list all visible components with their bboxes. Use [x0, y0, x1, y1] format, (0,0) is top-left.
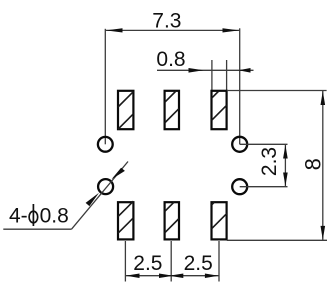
leader underline: [3, 228, 71, 230]
arrowhead 2.3 up: [283, 145, 288, 159]
extension line pad left edge: [211, 60, 213, 91]
svg-text:2.5: 2.5: [133, 252, 162, 275]
arrowhead 7.3 right: [223, 28, 240, 32]
arrowhead 2.5 middle left-pointing: [169, 274, 183, 279]
svg-text:0.8: 0.8: [40, 204, 69, 227]
dimension line 8: [322, 91, 324, 241]
hole circle bottom-left: [98, 179, 113, 194]
extension line left of 7.3 to hole center: [104, 29, 106, 145]
hole circle top-right: [232, 137, 247, 152]
dimension line 7.3: [105, 29, 239, 31]
pad top-right hatched: [212, 91, 227, 129]
pad bottom-left hatched: [118, 201, 133, 239]
arrowhead 2.5 right outer: [205, 274, 219, 279]
svg-text:7.3: 7.3: [152, 10, 181, 33]
hole circle top-left: [98, 137, 113, 152]
arrowhead 7.3 left: [106, 28, 123, 32]
pad top-left hatched: [118, 91, 133, 129]
extension line pad right edge: [226, 60, 228, 91]
svg-text:4-: 4-: [9, 204, 28, 227]
leader arrowhead upper: [112, 168, 125, 180]
pad bottom-middle hatched: [165, 202, 179, 239]
extension line below pad bottom-right: [218, 241, 220, 282]
label 4-phi0.8: [9, 204, 69, 227]
arrowhead 2.3 down: [283, 173, 288, 187]
dimension line 0.8: [157, 69, 254, 71]
extension line 8 bottom: [227, 239, 327, 241]
leader diagonal through bottom-left hole: [72, 162, 129, 230]
pad top-middle hatched: [165, 91, 179, 129]
arrowhead 0.8 right: [239, 68, 251, 73]
extension line 2.3 top from hole center: [240, 143, 288, 145]
extension line 8 top: [227, 90, 327, 92]
svg-text:8: 8: [300, 158, 325, 170]
arrowhead 2.5 left outer: [126, 274, 140, 279]
extension line 2.3 bottom from hole center: [240, 186, 288, 188]
dimension line 2.5 pair: [125, 275, 219, 277]
arrowhead 2.5 middle right-pointing: [159, 274, 173, 279]
arrowhead 0.8 left: [189, 68, 204, 73]
svg-text:0.8: 0.8: [156, 48, 185, 71]
extension line below pad bottom-middle: [170, 241, 172, 282]
svg-text:2.5: 2.5: [184, 252, 213, 275]
pad bottom-right hatched: [212, 202, 227, 239]
dimension line 2.3: [284, 144, 286, 186]
hole circle bottom-right: [232, 179, 247, 194]
extension line below pad bottom-left: [124, 241, 126, 282]
extension line right of 7.3 to hole center: [239, 28, 241, 144]
arrowhead 8 up: [321, 91, 326, 105]
svg-text:2.3: 2.3: [258, 147, 281, 176]
arrowhead 8 down: [321, 226, 326, 240]
leader arrowhead lower: [86, 193, 99, 206]
